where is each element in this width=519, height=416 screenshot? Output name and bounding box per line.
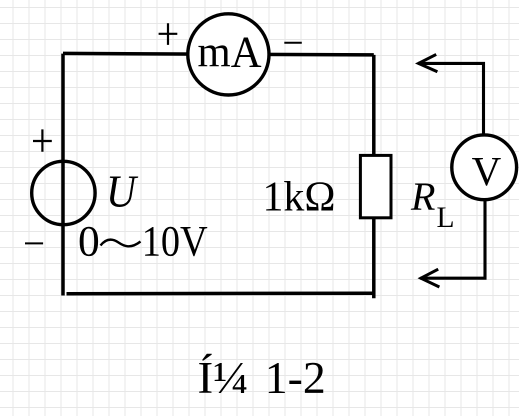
svg-text:10V: 10V: [142, 218, 208, 266]
polarity + (source): [33, 129, 52, 151]
voltmeter V (circle): [452, 135, 517, 200]
svg-text:Í¼: Í¼: [198, 353, 249, 403]
arrowhead top probe: [419, 54, 438, 71]
wire top (from source branch to right branch): [63, 53, 374, 55]
svg-text:L: L: [437, 202, 455, 234]
wire bottom: [67, 291, 376, 295]
svg-text:mA: mA: [198, 27, 262, 76]
wire left vertical (source branch): [61, 54, 65, 296]
polarity + (ammeter): [159, 23, 178, 45]
polarity - (ammeter): [284, 42, 302, 44]
wire right vertical (load branch): [372, 55, 376, 298]
voltage source U (circle): [32, 161, 95, 224]
svg-text:1kΩ: 1kΩ: [263, 174, 336, 220]
svg-text:U: U: [106, 166, 138, 217]
svg-text:V: V: [472, 148, 502, 194]
voltmeter probe wire (top, with corner): [418, 63, 484, 134]
ammeter mA: [188, 14, 269, 95]
voltmeter probe wire (bottom, with corner): [420, 200, 485, 278]
arrowhead bottom probe: [421, 269, 440, 287]
svg-text:R: R: [410, 174, 435, 219]
svg-text:1-2: 1-2: [265, 353, 326, 403]
polarity - (source): [25, 242, 43, 244]
resistor RL (rectangle): [360, 155, 391, 217]
svg-text:0: 0: [78, 218, 100, 266]
